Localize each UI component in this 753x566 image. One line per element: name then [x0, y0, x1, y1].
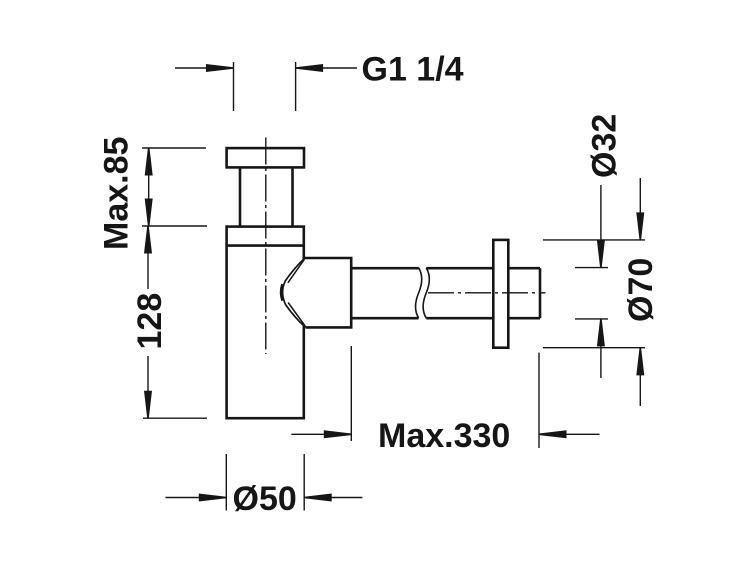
svg-text:Max.85: Max.85 [98, 137, 136, 250]
svg-text:128: 128 [131, 293, 169, 350]
svg-text:Max.330: Max.330 [378, 417, 510, 455]
svg-text:G1 1/4: G1 1/4 [362, 51, 464, 89]
svg-text:Ø70: Ø70 [622, 258, 660, 322]
svg-text:Ø32: Ø32 [586, 114, 624, 178]
svg-text:Ø50: Ø50 [233, 480, 297, 518]
